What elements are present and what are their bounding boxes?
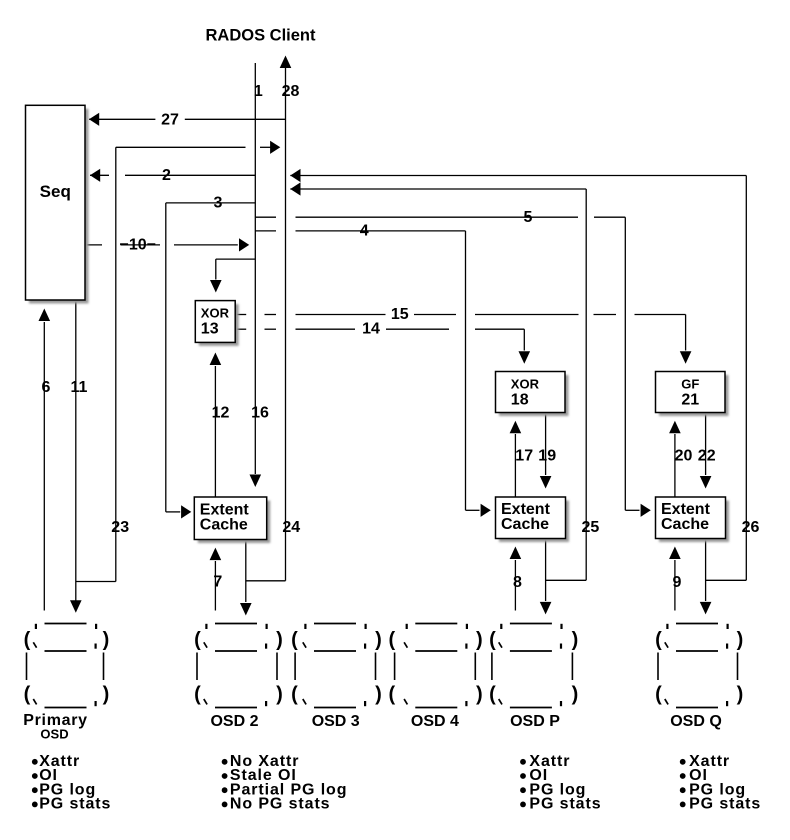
wire 5 horizontal into extent cache Q xyxy=(625,509,639,511)
arrowhead 7 into extent cache 1 xyxy=(210,548,222,561)
svg-text:5: 5 xyxy=(524,209,533,226)
svg-text:): ) xyxy=(103,684,110,706)
svg-text:(: ( xyxy=(291,629,298,651)
svg-text:4: 4 xyxy=(360,223,369,240)
svg-text:Cache: Cache xyxy=(501,516,549,533)
wire 10 (Seq to client) xyxy=(85,244,238,246)
wire 9 vertical xyxy=(674,560,676,611)
svg-text:PG stats: PG stats xyxy=(39,796,111,813)
svg-text:(: ( xyxy=(388,629,395,651)
svg-text:11: 11 xyxy=(71,379,88,396)
svg-text:No PG stats: No PG stats xyxy=(230,796,331,813)
OSD 2 symbol xyxy=(194,624,283,708)
wire lifeline 1/16 (client down-path) xyxy=(254,63,256,474)
svg-text:): ) xyxy=(476,629,483,651)
arrowhead 12 into XOR 13 xyxy=(210,353,222,366)
bullet list OSD P xyxy=(520,753,601,813)
wire 12 vertical xyxy=(214,366,216,497)
svg-text:−10−: −10− xyxy=(120,237,156,254)
svg-text:RADOS Client: RADOS Client xyxy=(205,27,316,45)
svg-text:17: 17 xyxy=(515,447,533,464)
svg-text:(: ( xyxy=(489,629,496,651)
wire 3 horizontal xyxy=(166,202,256,204)
svg-text:GF: GF xyxy=(681,377,699,392)
wire 4 vertical down xyxy=(465,231,467,510)
wire 11 vertical Seq to primary OSD xyxy=(75,300,77,601)
wire 7 vertical xyxy=(214,561,216,611)
svg-text:24: 24 xyxy=(282,519,300,536)
svg-text:14: 14 xyxy=(362,321,380,338)
svg-text:(: ( xyxy=(24,629,31,651)
box extent cache Q xyxy=(656,497,730,542)
arrowhead 8 into extent cache P xyxy=(510,547,522,560)
arrowhead 28 up to client xyxy=(280,56,292,69)
wire 23 vertical xyxy=(115,147,117,581)
svg-text:OSD 2: OSD 2 xyxy=(210,713,258,730)
wire 3 vertical down to extent cache 1 xyxy=(165,203,167,512)
svg-text:25: 25 xyxy=(582,519,600,536)
arrowhead 20 into GF 21 xyxy=(669,421,681,434)
svg-text:2: 2 xyxy=(162,167,171,184)
svg-text:(: ( xyxy=(291,684,298,706)
arrowhead 22 into extent cache Q xyxy=(700,476,712,489)
wire 14 (XOR13 to XOR18) xyxy=(236,328,525,330)
svg-text:Cache: Cache xyxy=(200,517,248,534)
OSD Q symbol xyxy=(655,624,743,708)
wire 26 merge into OSD Q path xyxy=(706,579,747,581)
wire 26 upper horizontal xyxy=(290,175,746,177)
svg-text:12: 12 xyxy=(212,405,230,422)
arrowhead 16 into extent cache 1 xyxy=(250,475,262,488)
svg-text:): ) xyxy=(476,684,483,706)
box extent cache P xyxy=(496,497,570,542)
svg-text:27: 27 xyxy=(161,111,179,128)
svg-text:PG stats: PG stats xyxy=(689,796,761,813)
svg-text:26: 26 xyxy=(742,519,760,536)
wire extent cache P down to OSD P xyxy=(545,539,547,602)
svg-text:13: 13 xyxy=(201,321,219,338)
arrowhead right at line 28 (y=147) xyxy=(270,141,280,154)
arrowhead 26 at line 28 xyxy=(290,169,300,182)
arrowhead into XOR 13 top xyxy=(210,280,222,293)
svg-text:Cache: Cache xyxy=(661,516,709,533)
svg-text:Seq: Seq xyxy=(40,182,71,201)
arrowhead 19 into extent cache P xyxy=(540,476,552,489)
arrowhead into XOR 18 top xyxy=(519,351,531,364)
arrowhead 2 at Seq xyxy=(90,169,100,182)
arrowhead 27 at Seq xyxy=(89,113,99,126)
wire 15 vertical into GF 21 xyxy=(685,315,687,351)
svg-text:): ) xyxy=(572,629,579,651)
arrowhead 17 into XOR 18 xyxy=(510,421,522,434)
svg-text:(: ( xyxy=(388,684,395,706)
svg-text:18: 18 xyxy=(511,392,529,409)
wire 3 horizontal into extent cache 1 xyxy=(166,511,180,513)
svg-text:(: ( xyxy=(655,684,662,706)
wire 2 (client to Seq) xyxy=(90,174,255,176)
arrowhead into OSD Q xyxy=(700,602,712,615)
svg-text:19: 19 xyxy=(538,447,556,464)
arrowhead 9 into extent cache Q xyxy=(669,547,681,560)
OSD P symbol xyxy=(489,624,578,708)
svg-text:): ) xyxy=(375,684,382,706)
arrowhead 10 at line 1 xyxy=(239,238,249,251)
wire lifeline 28/24 (client up-path) xyxy=(285,68,287,581)
svg-text:28: 28 xyxy=(282,83,300,100)
svg-text:OSD: OSD xyxy=(40,727,68,742)
wire 22 vertical xyxy=(705,413,707,476)
svg-text:(: ( xyxy=(24,684,31,706)
wire 24 merge into OSD 2 path xyxy=(246,580,286,582)
svg-text:15: 15 xyxy=(391,306,409,323)
arrowhead into GF 21 top xyxy=(680,351,692,364)
arrowhead into OSD P xyxy=(540,602,552,615)
svg-text:(: ( xyxy=(489,684,496,706)
svg-text:(: ( xyxy=(194,629,201,651)
svg-text:OSD Q: OSD Q xyxy=(670,713,722,730)
svg-text:): ) xyxy=(276,629,283,651)
arrowhead into OSD 2 xyxy=(240,603,252,616)
arrowhead 3 into extent cache 1 xyxy=(181,505,191,518)
svg-text:): ) xyxy=(737,629,744,651)
wire to client (y=147) xyxy=(116,146,271,148)
wire 25 vertical down xyxy=(585,189,587,580)
svg-text:): ) xyxy=(276,684,283,706)
svg-text:6: 6 xyxy=(42,379,51,396)
OSD 4 symbol xyxy=(388,624,482,708)
wire 4 horizontal xyxy=(255,230,465,232)
svg-text:XOR: XOR xyxy=(201,306,230,321)
wire 8 vertical xyxy=(514,560,516,611)
svg-text:22: 22 xyxy=(698,447,716,464)
arrowhead 4 into extent cache P xyxy=(481,504,491,517)
wire 15 (XOR13 to GF21) xyxy=(236,314,686,316)
arrowhead 11 into primary OSD xyxy=(70,600,82,613)
svg-text:XOR: XOR xyxy=(511,377,540,392)
svg-text:8: 8 xyxy=(513,574,522,591)
wire 25 upper horizontal xyxy=(290,188,586,190)
bullet list OSD 2 xyxy=(222,753,348,813)
svg-text:16: 16 xyxy=(251,405,269,422)
wire 5 horizontal xyxy=(255,216,625,218)
wire 20 vertical xyxy=(674,434,676,497)
svg-text:7: 7 xyxy=(213,574,222,591)
box XOR 18 xyxy=(496,372,569,417)
svg-text:(: ( xyxy=(194,684,201,706)
wire XOR 13 feed vertical xyxy=(215,259,217,279)
wire 23 merge into primary OSD path xyxy=(76,581,116,583)
box Seq xyxy=(26,105,89,303)
svg-text:(: ( xyxy=(655,629,662,651)
arrowhead 5 into extent cache Q xyxy=(641,504,651,517)
box GF 21 xyxy=(656,372,729,417)
svg-text:20: 20 xyxy=(675,447,693,464)
OSD 3 symbol xyxy=(291,624,382,708)
bullet list primary OSD xyxy=(32,753,111,813)
wire 6 vertical primary OSD to Seq xyxy=(43,322,45,611)
svg-text:): ) xyxy=(103,629,110,651)
primary OSD symbol xyxy=(24,624,110,708)
bullet list OSD Q xyxy=(680,753,761,813)
wire 4 horizontal into extent cache P xyxy=(466,509,480,511)
arrowhead 6 into Seq xyxy=(39,309,51,322)
wire 27 (client to Seq) xyxy=(89,118,286,120)
wire 26 vertical down xyxy=(745,176,747,581)
wire 19 vertical xyxy=(545,413,547,476)
svg-text:): ) xyxy=(375,629,382,651)
box XOR 13 xyxy=(195,301,238,346)
wire 25 merge into OSD P path xyxy=(546,579,587,581)
svg-text:): ) xyxy=(572,684,579,706)
svg-text:3: 3 xyxy=(213,194,222,211)
svg-text:): ) xyxy=(737,684,744,706)
wire from line 1 to XOR 13 feed xyxy=(216,258,256,260)
svg-text:1: 1 xyxy=(254,83,263,100)
svg-text:23: 23 xyxy=(111,519,129,536)
svg-text:OSD P: OSD P xyxy=(510,713,560,730)
wire 5 vertical down xyxy=(624,217,626,510)
svg-text:OSD 4: OSD 4 xyxy=(411,713,459,730)
svg-text:21: 21 xyxy=(681,392,699,409)
wire 17 vertical xyxy=(514,434,516,497)
wire 14 vertical into XOR 18 xyxy=(523,329,525,350)
box extent cache 1 xyxy=(194,497,270,543)
arrowhead 25 at line 28 xyxy=(290,182,300,195)
wire extent cache Q down to OSD Q xyxy=(705,539,707,602)
svg-text:OSD 3: OSD 3 xyxy=(312,713,360,730)
svg-text:PG stats: PG stats xyxy=(529,796,601,813)
svg-text:9: 9 xyxy=(673,574,682,591)
wire extent cache 1 down to OSD 2 xyxy=(245,540,247,603)
